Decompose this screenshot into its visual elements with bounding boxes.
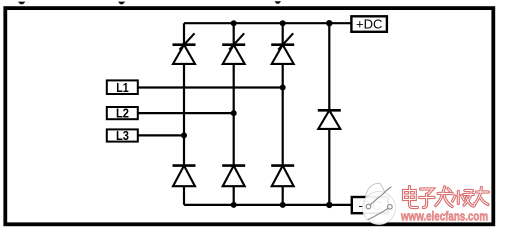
svg-text:L1: L1 (116, 80, 129, 95)
svg-text:www.elecfans.com: www.elecfans.com (400, 209, 488, 224)
svg-text:+DC: +DC (356, 17, 382, 32)
svg-text:L3: L3 (116, 128, 129, 143)
svg-text:L2: L2 (116, 106, 129, 121)
